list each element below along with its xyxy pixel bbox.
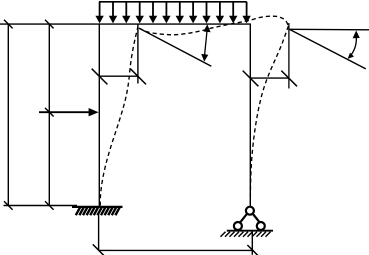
distributed load top line bbox=[99, 1, 247, 3]
tick at span dimension right end bbox=[247, 245, 258, 255]
tick at right sway dimension, left end bbox=[243, 71, 259, 87]
rotation angle arc at right joint bbox=[349, 37, 356, 58]
sway dimension line left bbox=[99, 75, 138, 77]
bottom-left dimension baseline bbox=[4, 205, 78, 207]
tick at left sway dimension, right end bbox=[130, 69, 146, 85]
outer height dimension line bbox=[7, 24, 9, 205]
tick at outer dimension bottom bbox=[4, 201, 13, 210]
tick at inner dimension top bbox=[45, 20, 54, 29]
roller support right leg bbox=[253, 214, 260, 223]
left column bbox=[98, 24, 100, 207]
tick at inner dimension bottom bbox=[45, 201, 54, 210]
roller support left leg bbox=[240, 214, 247, 223]
right column bbox=[249, 24, 251, 207]
sway extension line at right joint bbox=[288, 23, 290, 89]
inner height dimension line bbox=[48, 24, 50, 205]
tangent line at right joint bbox=[289, 29, 366, 69]
tangent line at left joint bbox=[139, 28, 211, 66]
tick at right sway dimension, right end bbox=[281, 71, 297, 87]
beam with top extension line to left edge bbox=[0, 23, 251, 25]
tick at outer dimension top bbox=[4, 20, 13, 29]
rotation angle arrow at left joint (double headed) bbox=[205, 30, 208, 57]
roller ground line bbox=[227, 230, 273, 232]
horizontal force arrow bbox=[39, 111, 91, 113]
sway dimension line right bbox=[250, 77, 289, 79]
span extension line left bbox=[98, 214, 100, 251]
roller support pin circle bbox=[246, 207, 254, 215]
tick at left sway dimension, left end bbox=[92, 69, 108, 85]
distributed load arrows bbox=[100, 2, 247, 18]
deflected beam (dashed) bbox=[139, 16, 288, 35]
span dimension line bbox=[99, 249, 253, 251]
roller left wheel bbox=[234, 222, 242, 230]
horizontal force arrowhead bbox=[89, 108, 99, 116]
tick at force arrow level bbox=[45, 108, 54, 117]
left support hatching bbox=[76, 208, 120, 216]
chord reference line at right joint bbox=[289, 28, 369, 31]
deflected left column (dashed) bbox=[100, 27, 138, 206]
left fixed support ground bar bbox=[72, 206, 123, 208]
distributed load arrowheads bbox=[95, 16, 250, 24]
roller right wheel bbox=[257, 222, 265, 230]
sway extension line at left joint bbox=[137, 24, 139, 83]
roller ground hatching bbox=[221, 232, 271, 237]
tick at span dimension left end bbox=[93, 244, 105, 255]
span extension line right bbox=[251, 232, 253, 255]
deflected right column (dashed) bbox=[250, 26, 288, 206]
